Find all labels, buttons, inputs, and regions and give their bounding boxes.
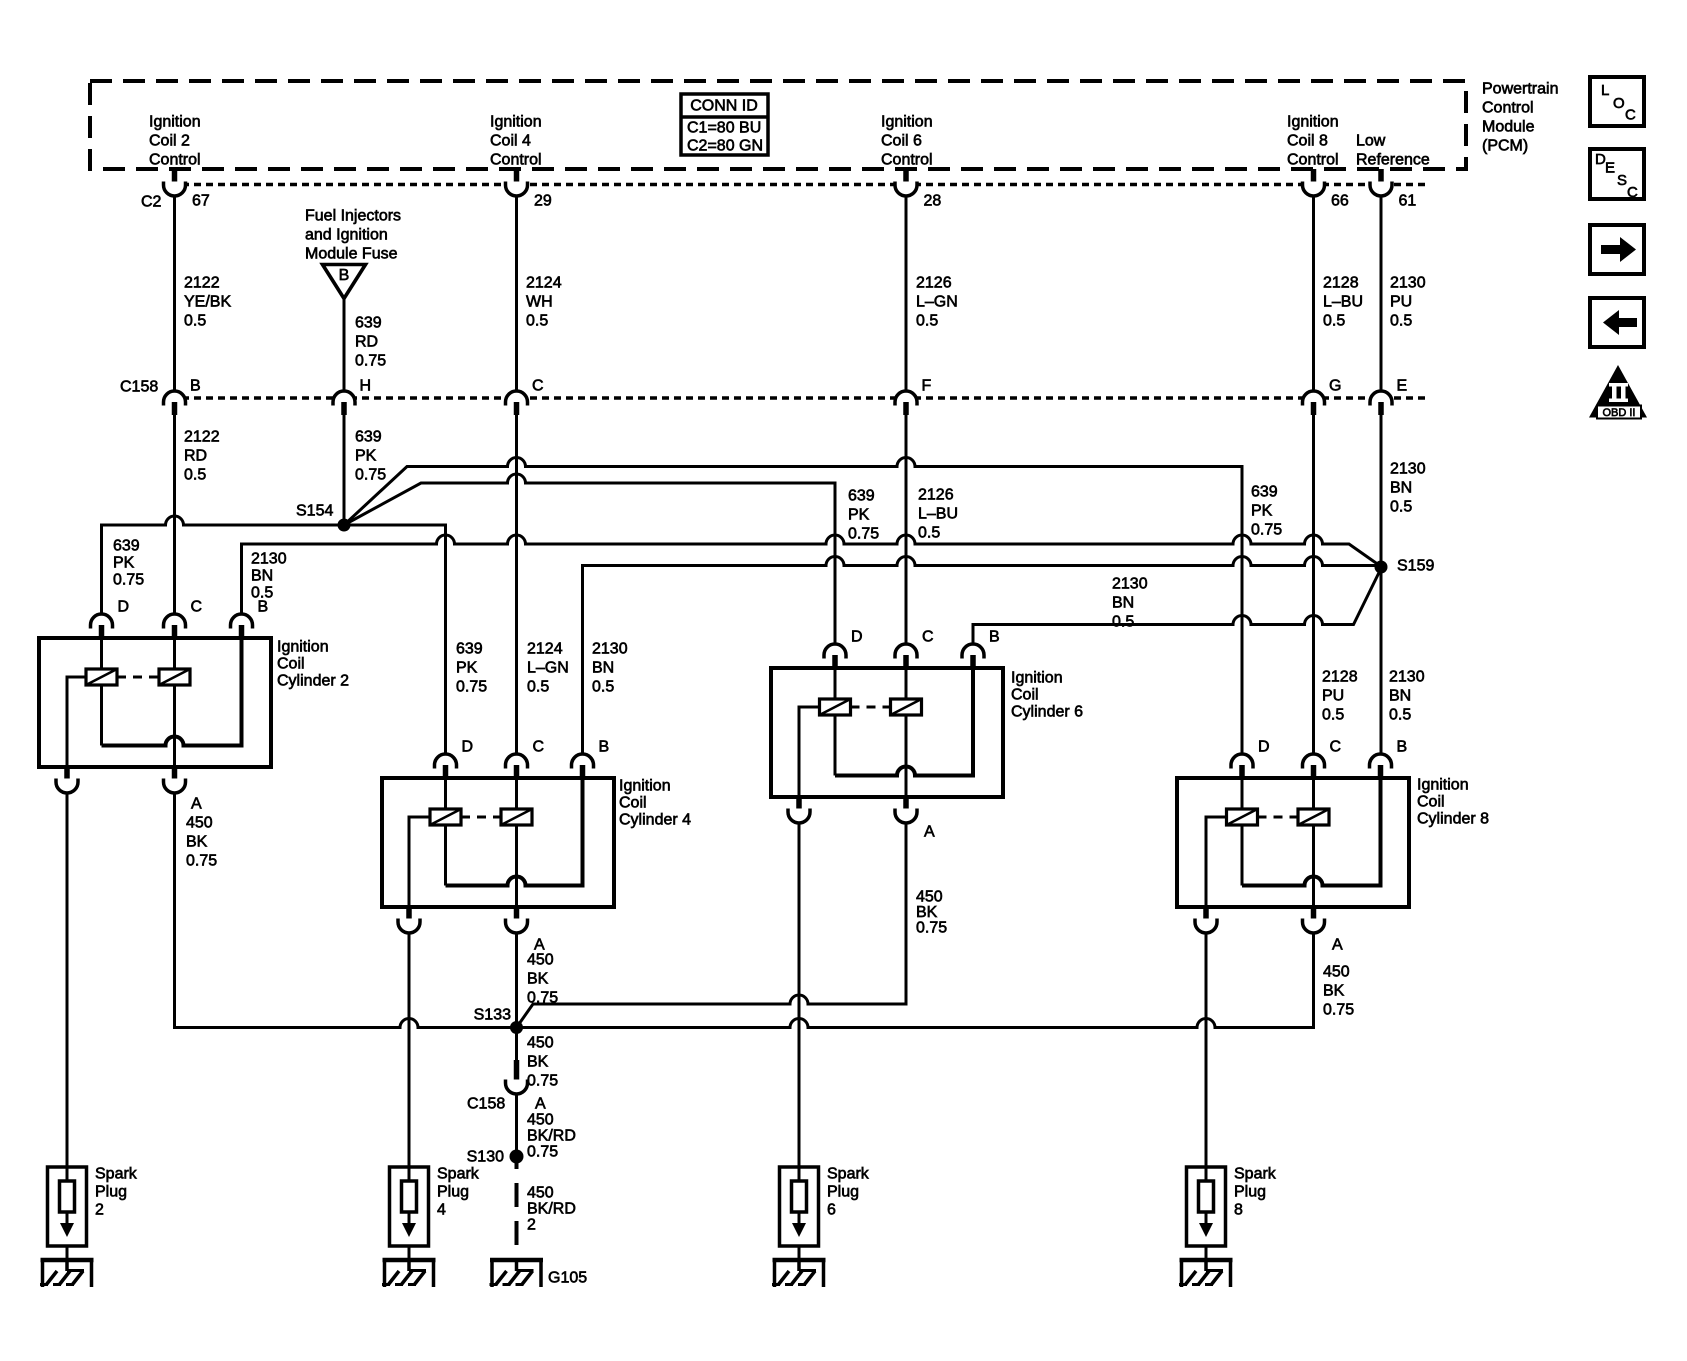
- connector row C2 (dotted line): [170, 183, 1428, 187]
- svg-text:450: 450: [527, 1035, 554, 1052]
- svg-text:L: L: [1601, 82, 1609, 99]
- svg-text:0.75: 0.75: [1251, 522, 1282, 539]
- coil 8 spark tower terminal: [1195, 907, 1217, 933]
- svg-text:0.75: 0.75: [186, 853, 217, 870]
- connector C158 pin G: [1303, 378, 1342, 416]
- coil 8 pin B connector: [1370, 739, 1408, 779]
- svg-text:C: C: [191, 599, 203, 616]
- svg-text:Control: Control: [490, 152, 542, 169]
- coil 2 secondary to spark plug internal wire: [67, 677, 86, 767]
- svg-text:B: B: [599, 739, 610, 756]
- svg-text:450: 450: [1323, 964, 1350, 981]
- svg-text:Spark: Spark: [437, 1166, 480, 1183]
- coil 4 secondary to spark plug internal wire: [409, 817, 430, 907]
- connector C158 pin E: [1370, 378, 1407, 416]
- svg-text:Ignition: Ignition: [1287, 114, 1339, 131]
- svg-text:OBD II: OBD II: [1602, 407, 1635, 419]
- icon DESC: [1590, 149, 1644, 201]
- wire 2130 BN low reference (C158 E down through S159 to coil8 B pin): [1381, 415, 1426, 753]
- fuse feed: Fuel Injectors and Ignition Module Fuse: [305, 208, 401, 263]
- wire 450 BK/RD (C158 A to S130): [517, 1094, 576, 1161]
- svg-text:B: B: [258, 599, 269, 616]
- svg-text:L–BU: L–BU: [918, 506, 958, 523]
- splice S130: [467, 1149, 524, 1166]
- wire spark plug 8 to ground: [1205, 1246, 1208, 1260]
- svg-text:Coil: Coil: [1011, 687, 1039, 704]
- PCM label: Ignition Coil 2 Control: [149, 114, 201, 169]
- coil 6 secondary winding: [891, 668, 922, 797]
- coil 6 secondary to spark plug internal wire: [799, 707, 820, 797]
- svg-text:0.75: 0.75: [527, 1073, 558, 1090]
- svg-text:Spark: Spark: [1234, 1166, 1277, 1183]
- svg-text:0.5: 0.5: [918, 525, 940, 542]
- svg-text:BN: BN: [592, 660, 614, 677]
- svg-text:E: E: [1605, 159, 1615, 176]
- svg-text:BN: BN: [1112, 595, 1134, 612]
- svg-text:L–GN: L–GN: [916, 294, 958, 311]
- svg-text:A: A: [924, 824, 935, 841]
- wire 2128 L-BU coil8 control (PCM 66 to C158 G): [1314, 196, 1364, 391]
- svg-text:2130: 2130: [592, 641, 628, 658]
- spark plug 6: [780, 1166, 870, 1247]
- coil 2 winding coupling (dashed): [117, 676, 159, 679]
- svg-text:B: B: [339, 267, 350, 284]
- connector C158 pin F: [895, 378, 932, 416]
- svg-text:PU: PU: [1322, 688, 1344, 705]
- wire 639 PK: S154 left branch to coil2 D pin: [102, 516, 345, 613]
- svg-text:Control: Control: [1287, 152, 1339, 169]
- svg-text:Cylinder 2: Cylinder 2: [277, 673, 349, 690]
- coil 2 secondary winding: [159, 638, 190, 767]
- coil 6 pin D connector: [824, 629, 863, 669]
- svg-text:G: G: [1329, 378, 1341, 395]
- svg-text:Coil: Coil: [619, 795, 647, 812]
- fuse symbol B (triangle): [323, 265, 366, 299]
- svg-text:(PCM): (PCM): [1482, 138, 1528, 155]
- svg-text:C: C: [922, 629, 934, 646]
- svg-text:S133: S133: [474, 1007, 511, 1024]
- svg-text:Ignition: Ignition: [277, 639, 329, 656]
- ground G105: [490, 1260, 588, 1287]
- svg-text:BN: BN: [1390, 480, 1412, 497]
- svg-text:C: C: [533, 739, 545, 756]
- connector C158 pin H: [333, 378, 371, 416]
- svg-text:0.75: 0.75: [1323, 1002, 1354, 1019]
- wire 2124 L-GN (C158 C down to coil4 C pin): [517, 415, 569, 753]
- svg-text:Plug: Plug: [827, 1184, 859, 1201]
- svg-text:2122: 2122: [184, 275, 220, 292]
- coil 8 internal return wire: [1242, 778, 1381, 886]
- CONN ID box: [681, 94, 768, 155]
- svg-text:0.5: 0.5: [916, 313, 938, 330]
- svg-text:Ignition: Ignition: [1011, 670, 1063, 687]
- splice S133: [474, 1007, 523, 1035]
- svg-text:Spark: Spark: [827, 1166, 870, 1183]
- svg-text:B: B: [190, 378, 201, 395]
- svg-text:Ignition: Ignition: [619, 778, 671, 795]
- svg-text:2128: 2128: [1323, 275, 1359, 292]
- coil 2 pin B connector: [231, 599, 269, 639]
- svg-text:S: S: [1617, 172, 1627, 189]
- coil 6 winding coupling (dashed): [851, 706, 891, 709]
- svg-text:C: C: [532, 378, 544, 395]
- coil 6 pin A connector: [895, 797, 917, 823]
- wire 2130 PU low reference (PCM 61 to C158 E): [1381, 196, 1426, 391]
- svg-text:2130: 2130: [1112, 576, 1148, 593]
- spark plug 2: [48, 1166, 138, 1247]
- svg-text:639: 639: [1251, 484, 1278, 501]
- wire spark plug 6 to ground: [798, 1246, 801, 1260]
- coil 4 pin C connector: [506, 739, 545, 779]
- svg-text:Powertrain: Powertrain: [1482, 81, 1558, 98]
- svg-text:Plug: Plug: [437, 1184, 469, 1201]
- wire 639 PK label at coil4 D: [456, 641, 487, 696]
- coil 2 pin D connector: [91, 599, 130, 639]
- svg-text:H: H: [360, 378, 372, 395]
- PCM label: Ignition Coil 8 Control: [1287, 114, 1339, 169]
- svg-text:C: C: [1625, 106, 1636, 123]
- coil 2 internal return wire: [102, 638, 242, 746]
- icon back arrow: [1590, 298, 1644, 347]
- svg-text:C: C: [1330, 739, 1342, 756]
- svg-text:0.5: 0.5: [1390, 499, 1412, 516]
- svg-text:A: A: [191, 796, 202, 813]
- ignition coil cylinder 4 box: [382, 778, 691, 908]
- svg-text:0.5: 0.5: [1390, 313, 1412, 330]
- ignition coil cylinder 8 box: [1177, 777, 1489, 908]
- PCM connector pin 28 (Ignition Coil 6 Control): [895, 169, 941, 210]
- coil 8 primary winding: [1227, 778, 1258, 886]
- wire spark plug 4 to ground: [408, 1246, 411, 1260]
- svg-text:Control: Control: [1482, 100, 1534, 117]
- svg-text:C2: C2: [141, 194, 162, 211]
- svg-text:Plug: Plug: [1234, 1184, 1266, 1201]
- coil 2 spark tower terminal: [56, 767, 78, 793]
- svg-text:0.75: 0.75: [113, 572, 144, 589]
- svg-text:C158: C158: [467, 1096, 505, 1113]
- wire 450 BK coil2 A label: [186, 796, 217, 870]
- wire spark plug 2 to ground: [66, 1246, 69, 1260]
- svg-text:RD: RD: [355, 334, 378, 351]
- svg-text:0.5: 0.5: [527, 679, 549, 696]
- svg-text:0.5: 0.5: [1389, 707, 1411, 724]
- wire to spark plug 6: [798, 823, 801, 1181]
- svg-text:639: 639: [848, 488, 875, 505]
- wire 450 BK/RD 2 (S130 to ground G105, dashed): [517, 1163, 576, 1258]
- svg-text:0.5: 0.5: [1323, 313, 1345, 330]
- svg-text:C1=80 BU: C1=80 BU: [687, 120, 761, 137]
- svg-text:0.75: 0.75: [916, 920, 947, 937]
- PCM connector pin 66 (Ignition Coil 8 Control): [1303, 169, 1349, 210]
- svg-text:0.5: 0.5: [184, 467, 206, 484]
- svg-text:PK: PK: [1251, 503, 1273, 520]
- ground (spark plug 4): [382, 1260, 436, 1287]
- icon LOC: [1590, 77, 1644, 126]
- svg-text:BK/RD: BK/RD: [527, 1128, 576, 1145]
- wire 639 PK: S154 right branch to coil4 D pin: [344, 525, 446, 753]
- svg-text:2126: 2126: [916, 275, 952, 292]
- svg-text:Control: Control: [149, 152, 201, 169]
- svg-text:C158: C158: [120, 379, 158, 396]
- svg-text:D: D: [118, 599, 130, 616]
- coil 4 secondary winding: [501, 778, 532, 907]
- svg-text:Coil: Coil: [1417, 794, 1445, 811]
- coil 6 pin C connector: [895, 629, 934, 669]
- svg-text:BN: BN: [1389, 688, 1411, 705]
- svg-text:C: C: [1627, 184, 1638, 201]
- svg-text:28: 28: [924, 193, 942, 210]
- svg-text:0.75: 0.75: [848, 526, 879, 543]
- svg-text:0.5: 0.5: [184, 313, 206, 330]
- svg-text:Plug: Plug: [95, 1184, 127, 1201]
- svg-text:450: 450: [527, 1112, 554, 1129]
- svg-text:Module: Module: [1482, 119, 1535, 136]
- PCM connector pin 29 (Ignition Coil 4 Control): [506, 169, 552, 210]
- coil 2 primary winding: [86, 638, 117, 746]
- svg-text:2: 2: [527, 1217, 536, 1234]
- wire 450 BK: coil2 A to splice S133 and on to coil8 A: [175, 793, 1314, 1028]
- svg-text:2130: 2130: [1389, 669, 1425, 686]
- svg-text:61: 61: [1399, 193, 1417, 210]
- svg-text:Module Fuse: Module Fuse: [305, 246, 398, 263]
- wire to spark plug 8: [1205, 933, 1208, 1181]
- coil 8 secondary to spark plug internal wire: [1206, 817, 1227, 907]
- svg-text:0.5: 0.5: [1322, 707, 1344, 724]
- svg-text:S130: S130: [467, 1149, 504, 1166]
- ignition coil cylinder 2 box: [39, 638, 349, 767]
- svg-text:Ignition: Ignition: [490, 114, 542, 131]
- ground (spark plug 2): [40, 1260, 94, 1287]
- svg-text:Low: Low: [1356, 133, 1386, 150]
- wire 639 PK: S154 branch to coil6 D pin: [344, 474, 879, 643]
- ignition coil cylinder 6 box: [771, 668, 1083, 797]
- ground (spark plug 8): [1179, 1260, 1233, 1287]
- coil 4 primary winding: [430, 778, 461, 886]
- svg-text:450: 450: [186, 815, 213, 832]
- svg-text:RD: RD: [184, 448, 207, 465]
- splice S159: [1375, 558, 1435, 575]
- coil 2 pin A connector: [163, 767, 185, 793]
- svg-text:2124: 2124: [527, 641, 563, 658]
- Powertrain Control Module (PCM) dashed box: [90, 81, 1558, 170]
- wire 2122 RD (C158 B down to coil2 C pin): [175, 415, 220, 613]
- splice S154: [296, 503, 351, 532]
- spark plug 8: [1187, 1166, 1277, 1247]
- svg-text:L–BU: L–BU: [1323, 294, 1363, 311]
- svg-text:639: 639: [355, 429, 382, 446]
- svg-text:2130: 2130: [1390, 275, 1426, 292]
- icon OBD II: [1589, 365, 1647, 419]
- wire 450 BK coil4 A label: [527, 937, 558, 1007]
- PCM connector pin 61 (Low Reference): [1370, 169, 1416, 210]
- coil 8 pin D connector: [1231, 739, 1270, 779]
- svg-text:B: B: [989, 629, 1000, 646]
- svg-text:Coil 8: Coil 8: [1287, 133, 1328, 150]
- coil 8 winding coupling (dashed): [1258, 816, 1299, 819]
- coil 6 primary winding: [820, 668, 851, 776]
- svg-text:D: D: [851, 629, 863, 646]
- svg-text:2130: 2130: [251, 551, 287, 568]
- svg-text:639: 639: [113, 538, 140, 555]
- svg-text:BK/RD: BK/RD: [527, 1201, 576, 1218]
- coil 8 pin A connector: [1303, 907, 1325, 933]
- svg-text:Ignition: Ignition: [149, 114, 201, 131]
- svg-text:2128: 2128: [1322, 669, 1358, 686]
- connector C158 pin B: [120, 378, 201, 416]
- svg-text:BN: BN: [251, 568, 273, 585]
- svg-text:2: 2: [95, 1202, 104, 1219]
- svg-text:Spark: Spark: [95, 1166, 138, 1183]
- wire 2130 BN: coil6 B pin to splice S159: [973, 569, 1381, 644]
- svg-text:E: E: [1397, 378, 1408, 395]
- svg-text:2130: 2130: [1390, 461, 1426, 478]
- svg-text:D: D: [462, 739, 474, 756]
- svg-text:0.5: 0.5: [526, 313, 548, 330]
- svg-text:S154: S154: [296, 503, 333, 520]
- spark plug 4: [390, 1166, 480, 1247]
- PCM label: Low Reference: [1356, 133, 1430, 169]
- coil 6 internal return wire: [835, 668, 973, 776]
- svg-text:F: F: [922, 378, 932, 395]
- svg-text:L–GN: L–GN: [527, 660, 569, 677]
- coil 4 winding coupling (dashed): [461, 816, 501, 819]
- coil 4 pin B connector: [572, 739, 610, 779]
- svg-text:Coil: Coil: [277, 656, 305, 673]
- wire 450 BK coil6 A label: [916, 824, 947, 937]
- PCM label: Ignition Coil 6 Control: [881, 114, 933, 169]
- svg-text:6: 6: [827, 1202, 836, 1219]
- connector row C158 (dotted line): [170, 396, 1428, 400]
- svg-text:639: 639: [456, 641, 483, 658]
- svg-text:2124: 2124: [526, 275, 562, 292]
- coil 8 secondary winding: [1298, 778, 1329, 907]
- svg-text:0.75: 0.75: [456, 679, 487, 696]
- svg-text:450: 450: [916, 889, 943, 906]
- svg-text:0.75: 0.75: [355, 353, 386, 370]
- wire 450 BK below S133 label: [527, 1035, 558, 1090]
- svg-text:450: 450: [527, 952, 554, 969]
- svg-text:639: 639: [355, 315, 382, 332]
- coil 4 pin D connector: [435, 739, 474, 779]
- wire to spark plug 2: [66, 793, 69, 1181]
- svg-text:Coil 4: Coil 4: [490, 133, 531, 150]
- svg-text:D: D: [1258, 739, 1270, 756]
- PCM label: Ignition Coil 4 Control: [490, 114, 542, 169]
- svg-text:Coil 6: Coil 6: [881, 133, 922, 150]
- wire 639 RD (fuse to C158 H): [344, 298, 386, 391]
- svg-text:C2=80 GN: C2=80 GN: [687, 138, 763, 155]
- svg-text:PU: PU: [1390, 294, 1412, 311]
- svg-text:29: 29: [534, 193, 552, 210]
- svg-text:8: 8: [1234, 1202, 1243, 1219]
- connector C158 pin A: [467, 1060, 546, 1113]
- svg-text:Coil 2: Coil 2: [149, 133, 190, 150]
- coil 8 pin C connector: [1303, 739, 1342, 779]
- svg-text:PK: PK: [113, 555, 135, 572]
- svg-text:0.75: 0.75: [527, 1144, 558, 1161]
- svg-text:PK: PK: [456, 660, 478, 677]
- svg-text:O: O: [1613, 95, 1625, 112]
- wire 2126 L-GN coil6 control (PCM 28 to C158 F): [906, 196, 958, 391]
- wire 639 PK: S154 branch to coil8 D pin (long top run): [344, 458, 1282, 754]
- wire 2126 L-BU (C158 F down to coil6 C pin): [906, 415, 958, 643]
- wire 450 BK coil8 A label: [1323, 937, 1354, 1019]
- coil 4 spark tower terminal: [398, 907, 420, 933]
- wire 450 BK: coil4 A down through S133: [515, 933, 518, 1060]
- wire 2130 BN: coil4 B pin to splice S159: [583, 557, 1382, 754]
- svg-text:A: A: [1332, 937, 1343, 954]
- svg-text:2122: 2122: [184, 429, 220, 446]
- svg-text:S159: S159: [1397, 558, 1434, 575]
- connector C158 pin C: [506, 378, 544, 416]
- coil 6 pin B connector: [962, 629, 1000, 669]
- svg-text:CONN ID: CONN ID: [690, 98, 758, 115]
- svg-text:BK: BK: [916, 904, 938, 921]
- PCM connector pin 67 (Ignition Coil 2 Control): [141, 169, 210, 211]
- svg-text:WH: WH: [526, 294, 553, 311]
- svg-text:BK: BK: [527, 971, 549, 988]
- wire to spark plug 4: [408, 933, 411, 1181]
- svg-text:Ignition: Ignition: [881, 114, 933, 131]
- svg-text:67: 67: [192, 193, 210, 210]
- svg-text:BK: BK: [1323, 983, 1345, 1000]
- wire 2130 BN: coil2 B pin to splice S159: [242, 535, 1382, 613]
- svg-text:Control: Control: [881, 152, 933, 169]
- svg-text:BK: BK: [186, 834, 208, 851]
- svg-text:PK: PK: [848, 507, 870, 524]
- svg-text:450: 450: [527, 1185, 554, 1202]
- svg-text:Reference: Reference: [1356, 152, 1430, 169]
- svg-text:66: 66: [1331, 193, 1349, 210]
- svg-text:and Ignition: and Ignition: [305, 227, 388, 244]
- svg-text:G105: G105: [548, 1270, 587, 1287]
- ground (spark plug 6): [772, 1260, 826, 1287]
- svg-text:PK: PK: [355, 448, 377, 465]
- coil 2 pin C connector: [163, 599, 202, 639]
- svg-text:0.5: 0.5: [1112, 614, 1134, 631]
- icon forward arrow: [1590, 225, 1644, 274]
- svg-text:Fuel Injectors: Fuel Injectors: [305, 208, 401, 225]
- svg-text:YE/BK: YE/BK: [184, 294, 231, 311]
- wire 450 BK: coil6 A branch into S133: [517, 823, 907, 1028]
- svg-text:A: A: [535, 1096, 546, 1113]
- coil 6 spark tower terminal: [788, 797, 810, 823]
- svg-text:0.5: 0.5: [592, 679, 614, 696]
- svg-text:B: B: [1397, 739, 1408, 756]
- svg-text:Cylinder 6: Cylinder 6: [1011, 704, 1083, 721]
- svg-text:Ignition: Ignition: [1417, 777, 1469, 794]
- svg-text:Cylinder 8: Cylinder 8: [1417, 811, 1489, 828]
- svg-text:BK: BK: [527, 1054, 549, 1071]
- wire 2124 WH coil4 control (PCM 29 to C158 C): [517, 196, 562, 391]
- svg-text:4: 4: [437, 1202, 446, 1219]
- coil 4 pin A connector: [506, 907, 528, 933]
- svg-text:2126: 2126: [918, 487, 954, 504]
- svg-text:Cylinder 4: Cylinder 4: [619, 812, 691, 829]
- wire 639 PK (C158 H down to splice S154): [344, 415, 386, 525]
- wire 2122 YE/BK coil2 control (PCM 67 to C158 B): [175, 196, 232, 391]
- coil 4 internal return wire: [446, 778, 583, 886]
- svg-text:0.75: 0.75: [355, 467, 386, 484]
- wire 2128 PU (C158 G down to coil8 C pin): [1314, 415, 1358, 753]
